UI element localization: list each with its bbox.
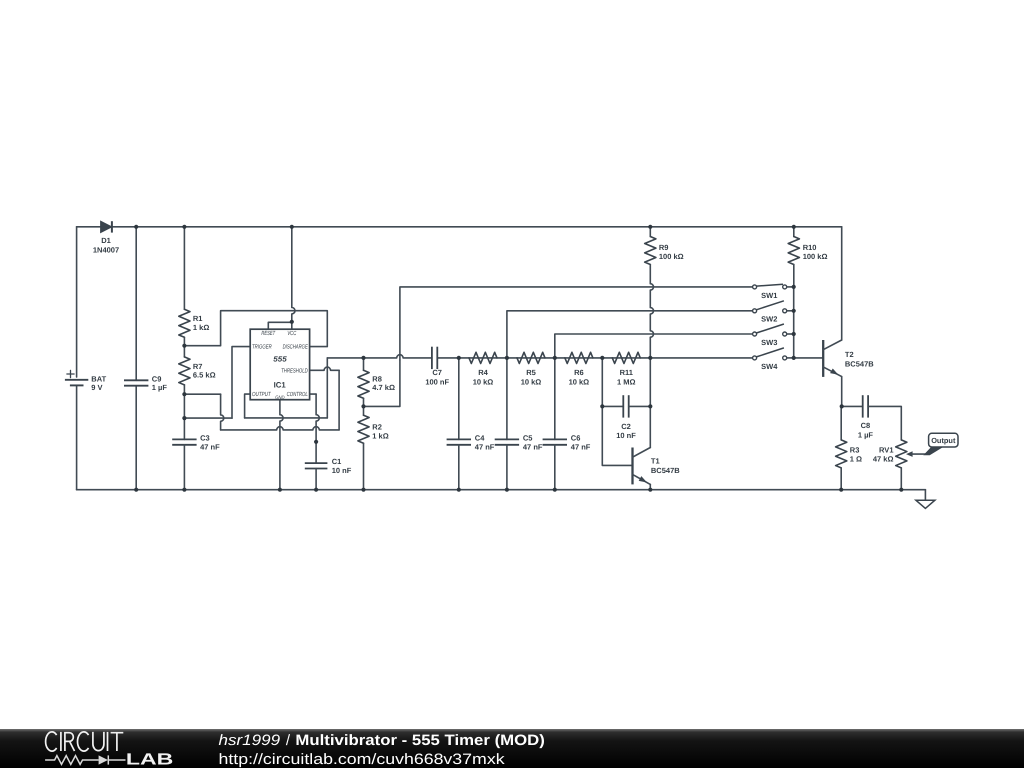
- svg-text:R2: R2: [372, 423, 382, 432]
- wire output node row: [841, 405, 863, 407]
- switch SW4: [753, 348, 794, 371]
- svg-text:Multivibrator - 555 Timer (MOD: Multivibrator - 555 Timer (MOD): [295, 732, 544, 749]
- svg-text:C1: C1: [332, 457, 342, 466]
- pin label DISCHARGE: [283, 344, 309, 351]
- capacitor C4 47nF: [447, 358, 495, 490]
- svg-text:47 nF: 47 nF: [523, 442, 543, 451]
- svg-text:1 kΩ: 1 kΩ: [193, 323, 209, 332]
- wire right supply drop to T2 collector: [841, 227, 843, 340]
- wire R7 bottom node to THRESHOLD (lower route): [184, 367, 339, 430]
- wire bottom ground rail: [77, 489, 926, 491]
- svg-text:10 kΩ: 10 kΩ: [473, 377, 494, 386]
- svg-text:THRESHOLD: THRESHOLD: [281, 368, 308, 375]
- svg-text:R10: R10: [803, 243, 817, 252]
- svg-text:1 MΩ: 1 MΩ: [617, 377, 636, 386]
- op-amp/timer IC1 555 box: [250, 329, 309, 400]
- resistor R8 4.7k: [358, 358, 395, 407]
- wire top supply rail (+9V): [77, 226, 842, 228]
- svg-text:R9: R9: [659, 243, 669, 252]
- svg-text:47 nF: 47 nF: [200, 442, 220, 451]
- capacitor C7 100nF: [425, 347, 449, 387]
- capacitor C8 1uF: [858, 395, 901, 440]
- svg-text:GND: GND: [275, 395, 285, 401]
- svg-text:47 nF: 47 nF: [571, 442, 591, 451]
- pin label THRESHOLD: [281, 368, 308, 375]
- svg-text:hsr1999: hsr1999: [219, 732, 281, 749]
- footer bar: [0, 729, 1024, 768]
- label 555: [273, 355, 287, 364]
- wire R9/main node down to T1 collector: [649, 358, 651, 448]
- svg-text:Output: Output: [931, 436, 956, 445]
- ground symbol: [916, 490, 935, 509]
- svg-text:SW3: SW3: [761, 338, 777, 347]
- svg-text:C9: C9: [152, 374, 162, 383]
- svg-text:T2: T2: [845, 350, 854, 359]
- svg-text:DISCHARGE: DISCHARGE: [283, 344, 309, 351]
- svg-text:BC547B: BC547B: [845, 359, 874, 368]
- pin label RESET: [261, 330, 276, 337]
- svg-text:1 µF: 1 µF: [152, 383, 168, 392]
- svg-text:6.5 kΩ: 6.5 kΩ: [193, 371, 216, 380]
- svg-text:D1: D1: [101, 236, 111, 245]
- svg-text:C5: C5: [523, 433, 533, 442]
- capacitor C3 47nF: [172, 433, 220, 489]
- wire GND pin to bottom rail: [280, 400, 283, 490]
- wire switch common column: [794, 287, 824, 358]
- pin label GND: [275, 395, 285, 401]
- svg-text:4.7 kΩ: 4.7 kΩ: [372, 383, 395, 392]
- wire SW2 feedback line: [507, 311, 753, 358]
- resistor R6 10k: [565, 352, 593, 386]
- switch SW1: [753, 284, 794, 300]
- wire T2 emitter down to output node: [841, 377, 843, 407]
- resistor R11 1M: [612, 352, 640, 386]
- svg-text:R3: R3: [850, 445, 860, 454]
- svg-text:IC1: IC1: [274, 381, 287, 390]
- battery BAT 9V: [65, 370, 107, 392]
- svg-text:100 nF: 100 nF: [425, 377, 449, 386]
- svg-text:C2: C2: [621, 422, 631, 431]
- svg-text:CONTROL: CONTROL: [287, 391, 308, 398]
- svg-text:10 kΩ: 10 kΩ: [569, 377, 590, 386]
- pin label TRIGGER: [252, 344, 272, 351]
- svg-text:R8: R8: [372, 374, 382, 383]
- svg-text:R7: R7: [193, 362, 203, 371]
- svg-text:LAB: LAB: [126, 751, 173, 768]
- capacitor C9 1uF: [124, 227, 167, 490]
- junction dots on top rail: [134, 225, 796, 229]
- svg-text:VCC: VCC: [287, 330, 296, 337]
- flag tail: [924, 447, 942, 455]
- capacitor C1 10nF: [305, 442, 352, 490]
- svg-text:BC547B: BC547B: [651, 466, 680, 475]
- svg-text:T1: T1: [651, 457, 660, 466]
- potentiometer RV1 47k: [873, 440, 907, 490]
- wire R1/R7 node to DISCHARGE pin: [184, 311, 327, 347]
- wiper arrow of RV1: [906, 451, 926, 457]
- resistor R2 1k: [358, 406, 389, 489]
- wire R6/R11 node down to C2 and T1 base: [602, 358, 632, 466]
- pin label OUTPUT: [252, 391, 272, 398]
- svg-text:BAT: BAT: [91, 374, 106, 383]
- svg-text:1 kΩ: 1 kΩ: [372, 431, 388, 440]
- svg-text:RV1: RV1: [879, 445, 893, 454]
- svg-text:C3: C3: [200, 433, 210, 442]
- capacitor C5 47nF: [495, 358, 543, 490]
- resistor R1 1k: [179, 227, 210, 346]
- wire main RC row: [327, 355, 752, 358]
- wire SW1 feedback line: [400, 287, 753, 360]
- transistor T1 BC547B: [633, 448, 681, 490]
- svg-text:1N4007: 1N4007: [93, 246, 119, 255]
- wire left rail lower (battery - to bottom rail): [76, 385, 78, 489]
- resistor R9 100k: [645, 227, 684, 358]
- resistor R7 6.5k: [179, 346, 216, 395]
- CircuitLab logo wordmark CIRCUIT: [46, 732, 124, 751]
- svg-text:R1: R1: [193, 314, 203, 323]
- resistor R3 1R: [836, 406, 862, 489]
- wire left rail upper (battery + to top rail): [76, 227, 78, 377]
- svg-text:SW2: SW2: [761, 315, 777, 324]
- svg-text:TRIGGER: TRIGGER: [252, 344, 272, 351]
- capacitor C2 10nF: [602, 395, 650, 440]
- junction dots on bottom rail: [134, 488, 903, 492]
- svg-text:R5: R5: [526, 368, 536, 377]
- svg-text:10 kΩ: 10 kΩ: [521, 377, 542, 386]
- wire CONTROL pin to C1: [310, 394, 320, 442]
- output flag Output: [929, 433, 958, 447]
- switch SW3: [753, 324, 794, 347]
- svg-text:SW1: SW1: [761, 291, 777, 300]
- svg-text:OUTPUT: OUTPUT: [252, 391, 272, 398]
- wire R7 bottom node down to C3: [183, 394, 185, 439]
- resistor R5 10k: [517, 352, 545, 386]
- svg-text:100 kΩ: 100 kΩ: [803, 252, 828, 261]
- wire R8/R2 node to SW1 drop: [364, 360, 400, 407]
- logo resistor-diode symbol: [45, 755, 125, 764]
- svg-text:1 µF: 1 µF: [858, 430, 874, 439]
- svg-text:C7: C7: [432, 368, 442, 377]
- svg-text:http://circuitlab.com/cuvh668v: http://circuitlab.com/cuvh668v37mxk: [219, 751, 506, 768]
- junction dots (interior nodes): [182, 285, 844, 444]
- wire R7/C3 node to TRIGGER pin: [184, 347, 250, 419]
- wire SW3 feedback line: [555, 334, 753, 358]
- transistor T2 BC547B: [823, 340, 874, 377]
- svg-text:C4: C4: [475, 433, 485, 442]
- svg-text:C8: C8: [861, 421, 871, 430]
- svg-text:10 nF: 10 nF: [332, 466, 352, 475]
- svg-text:R4: R4: [478, 368, 488, 377]
- svg-text:SW4: SW4: [761, 362, 778, 371]
- svg-text:C6: C6: [571, 433, 581, 442]
- label IC1: [274, 381, 287, 390]
- svg-text:100 kΩ: 100 kΩ: [659, 252, 684, 261]
- diode D1 1N4007: [93, 221, 119, 254]
- svg-text:1 Ω: 1 Ω: [850, 454, 862, 463]
- wire OUTPUT pin around to main row: [245, 358, 328, 418]
- svg-text:RESET: RESET: [261, 330, 276, 337]
- svg-text:47 nF: 47 nF: [475, 442, 495, 451]
- svg-text:47 kΩ: 47 kΩ: [873, 454, 894, 463]
- pin label CONTROL: [287, 391, 308, 398]
- resistor R10 100k: [788, 227, 827, 287]
- capacitor C6 47nF: [543, 358, 591, 490]
- svg-text:R11: R11: [620, 368, 633, 377]
- svg-text:9 V: 9 V: [91, 383, 102, 392]
- wire VCC/RESET to top rail: [268, 227, 295, 329]
- svg-text:10 nF: 10 nF: [616, 431, 636, 440]
- switch SW2: [753, 301, 794, 324]
- resistor R4 10k: [469, 352, 497, 386]
- svg-text:555: 555: [273, 355, 287, 364]
- pin label VCC: [287, 330, 296, 337]
- svg-text:R6: R6: [574, 368, 584, 377]
